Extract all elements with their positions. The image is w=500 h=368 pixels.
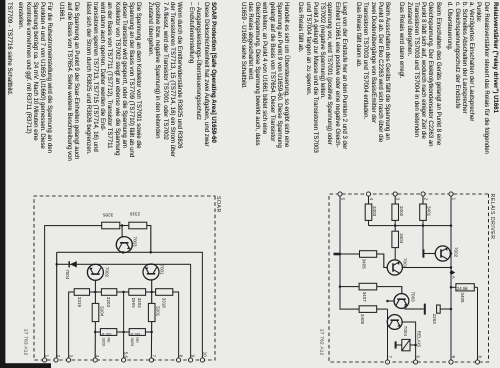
svg-text:RE: RE [107, 337, 112, 343]
transistor Q7003 [394, 294, 409, 309]
svg-text:27 782 A12: 27 782 A12 [320, 329, 325, 356]
terminal 7 [149, 358, 153, 362]
svg-text:3825: 3825 [130, 337, 135, 347]
svg-text:9: 9 [451, 356, 456, 359]
wire R3406 top stub [474, 286, 477, 288]
svg-text:8: 8 [478, 356, 483, 359]
wire terminal 7 rail [387, 309, 389, 360]
resistor R3403 [365, 204, 372, 220]
wire terminal 5 rail [339, 196, 341, 308]
wire terminal 9 rail [190, 264, 192, 358]
terminal 5 [338, 192, 342, 196]
terminal 1 [43, 358, 47, 362]
wire R3403 to bus [368, 220, 370, 225]
terminal 6 [414, 360, 418, 364]
svg-text:3201: 3201 [156, 306, 161, 317]
wire R3319 to terminal 3 rail [69, 292, 75, 358]
wire R3407 to 7003 base [377, 287, 402, 294]
emitter resistor R3825 0.2 ohm [145, 331, 151, 333]
svg-text:5: 5 [341, 198, 346, 201]
svg-text:3406: 3406 [460, 292, 465, 303]
resistor R3318 [156, 289, 173, 296]
wire terminal 2 lead [422, 196, 424, 204]
svg-text:7: 7 [388, 356, 393, 359]
wire R3205 to R2316 junction to 7003 base [120, 225, 129, 227]
wire 7002 base lead [423, 253, 435, 255]
svg-text:7002: 7002 [453, 247, 458, 258]
svg-text:7004: 7004 [65, 269, 70, 280]
wire 7001 emitter row to R3201 [151, 279, 153, 303]
resistor R3406 24.5k [456, 284, 474, 291]
svg-text:3204: 3204 [100, 306, 105, 317]
wire R3408 top to T7 rail [377, 308, 388, 310]
transistor Q7002 soar [87, 264, 103, 280]
wire rail node A from terminal 1 to terminal 9 [450, 196, 452, 360]
svg-text:3407: 3407 [362, 292, 367, 303]
svg-text:5,6: 5,6 [124, 352, 129, 359]
svg-text:2263: 2263 [432, 314, 437, 325]
resistor R3201 [148, 303, 155, 321]
svg-text:RE: RE [135, 337, 140, 343]
svg-text:7002: 7002 [105, 267, 110, 278]
wire R3407 lead down to T5 rail [340, 286, 359, 288]
relay top lead [410, 344, 416, 346]
scan border strip bottom [0, 0, 5, 368]
resistor R3319 [74, 289, 89, 296]
svg-text:7: 7 [151, 355, 156, 358]
resistor R3408 [359, 306, 377, 313]
svg-text:3205: 3205 [103, 212, 114, 217]
wire emitter row to R2202 [146, 291, 152, 293]
resistor R3203 [101, 289, 116, 296]
terminal 8 [475, 360, 479, 364]
wire R3408 lead down corner to T5 rail [340, 308, 359, 310]
node A marker [451, 270, 455, 275]
transistor Q7001 soar [143, 264, 159, 280]
transistor Q7003 soar [116, 237, 132, 253]
wire R3204 to terminal 4 rail [94, 322, 96, 358]
svg-text:2316: 2316 [130, 211, 141, 216]
wire terminal 4 lead [368, 196, 370, 204]
wire R3826 to T4 rail junction [95, 331, 100, 333]
svg-text:7004: 7004 [403, 326, 408, 337]
terminal 5,6 [122, 358, 126, 362]
svg-text:3203: 3203 [106, 297, 111, 308]
svg-text:4: 4 [369, 198, 374, 201]
wire terminal 3 lead [394, 196, 396, 204]
svg-text:3: 3 [396, 198, 401, 201]
resistor R3204 [92, 303, 99, 321]
svg-text:4: 4 [95, 355, 100, 358]
wire R3825 to T5 rail junction [117, 331, 129, 333]
resistor R3205 [102, 222, 120, 229]
terminal 3 [67, 358, 71, 362]
transistor Q7004 [387, 315, 402, 330]
svg-text:3405: 3405 [362, 259, 367, 270]
transistor Q7001 [387, 260, 402, 275]
wire 7001 collector to node A rail [402, 267, 451, 269]
resistor R3405 [360, 251, 377, 258]
wire bus vertical [369, 225, 452, 227]
svg-text:2: 2 [424, 198, 429, 201]
svg-text:7003: 7003 [132, 236, 137, 247]
wire R3318 to emitter row [152, 291, 156, 293]
terminal 4 [93, 358, 97, 362]
wire R3203 to R3319 with 7002 base junction [90, 291, 102, 293]
capacitor C2263 electrolytic [440, 308, 451, 310]
resistor R3401 [420, 204, 427, 220]
svg-text:10: 10 [202, 352, 207, 358]
resistor R2316 [129, 222, 147, 229]
wire terminal 2 row [56, 252, 58, 358]
unit box U1659-60 SOAR (dashed) [34, 196, 215, 360]
diode D7004 [70, 261, 77, 267]
ground stub on T5 rail [334, 253, 341, 256]
svg-text:3401: 3401 [427, 206, 432, 217]
terminal 1 [449, 192, 453, 196]
svg-text:3318: 3318 [162, 298, 167, 309]
wire R2202 to R3203 with T5 rail junction [117, 291, 129, 293]
svg-text:3402: 3402 [399, 206, 404, 217]
svg-text:RELAIS DRIVER: RELAIS DRIVER [489, 194, 495, 240]
svg-text:24.5k: 24.5k [457, 286, 469, 291]
wire R3405 to 7001 base [377, 254, 388, 268]
terminal 2 [421, 192, 425, 196]
unit box U1661 RELAIS DRIVER (dashed) [329, 194, 489, 362]
svg-text:3408: 3408 [360, 314, 365, 325]
svg-text:7003: 7003 [410, 292, 415, 303]
svg-text:7001: 7001 [159, 264, 164, 275]
svg-text:SOAR: SOAR [215, 196, 221, 213]
svg-text:DHN: DHN [131, 298, 136, 308]
svg-text:8: 8 [179, 355, 184, 358]
wire R3404 to transistor 7001 base [394, 248, 396, 261]
wire R3201 to terminal 7 rail [150, 322, 152, 358]
wire terminal 9 diode line [57, 263, 191, 265]
wire terminal 1 lead [45, 226, 102, 358]
wire C2263 to 7003 collector [405, 306, 424, 309]
svg-text:3826: 3826 [102, 337, 107, 347]
wire R3405 lead down [340, 253, 360, 255]
svg-text:RELAIS: RELAIS [417, 331, 422, 347]
transistor Q7002 [435, 246, 450, 261]
resistor R2202 DHN [129, 289, 146, 296]
wire terminal 8 to R3406 [477, 287, 479, 360]
emitter resistor R3826 0.2 ohm [100, 329, 116, 336]
resistor R3404 [392, 231, 399, 247]
svg-text:3403: 3403 [372, 206, 377, 217]
wire chain junction to R3204 [94, 292, 96, 303]
terminal 2 [54, 358, 58, 362]
terminal 9 [449, 360, 453, 364]
svg-text:3202: 3202 [137, 298, 142, 309]
terminal 8 [177, 358, 181, 362]
wire R3406 bottom stub [451, 286, 456, 288]
svg-text:3: 3 [69, 355, 74, 358]
terminal 7 [385, 360, 389, 364]
relay coil [402, 339, 410, 350]
resistor R3402 [392, 204, 399, 220]
svg-text:3319: 3319 [77, 297, 82, 308]
terminal 10 [200, 358, 204, 362]
svg-text:A: A [451, 276, 456, 279]
terminal 3 [393, 192, 397, 196]
stop bar on T2 rail [422, 249, 424, 257]
svg-text:27 783 A12: 27 783 A12 [24, 329, 29, 356]
terminal 4 [366, 192, 370, 196]
terminal 9 [189, 358, 193, 362]
wire 7003 emitter to T7 rail [388, 300, 395, 302]
wire R3402 to R3404 [394, 220, 396, 231]
wire R3401 to stop bar [422, 220, 424, 253]
scan border strip corner right [0, 363, 51, 368]
svg-text:9: 9 [191, 355, 196, 358]
wire R2316 top corner stub to bus [147, 226, 151, 253]
svg-text:1: 1 [45, 355, 50, 358]
wire bus vertical T10 to T2 row [57, 252, 203, 358]
svg-text:3404: 3404 [399, 233, 404, 244]
wire terminal 5-6 rail [123, 292, 125, 358]
svg-text:1: 1 [452, 198, 457, 201]
resistor chain top to terminal 8 rail [173, 292, 179, 358]
svg-text:6: 6 [416, 356, 421, 359]
wire 7002 base to chain [94, 280, 96, 292]
wire 7004 collector to T6 rail [402, 322, 416, 360]
resistor R3407 [359, 283, 377, 290]
relay bottom lead and bar [396, 344, 402, 346]
